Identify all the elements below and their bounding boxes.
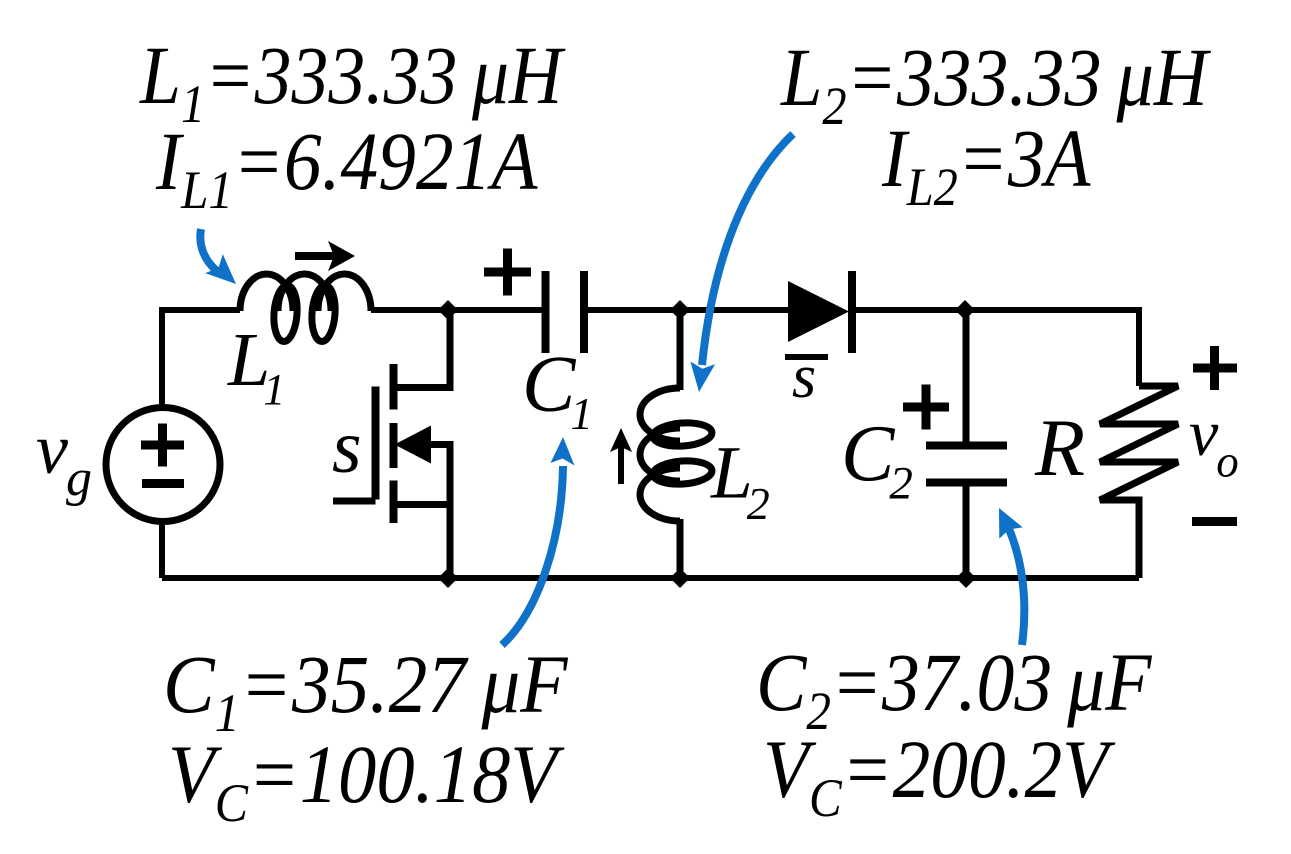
label C1 [522,341,593,439]
node A (L1/switch junction) [438,300,458,320]
label vg [36,409,92,507]
plus sign of C2 [903,385,949,430]
label R [1034,402,1085,493]
transistor Q1 body arrow [395,426,432,464]
transistor Q1 gate lead [333,498,376,505]
wire L2 bottom to ground rail [677,519,684,578]
diode D1 [788,271,852,353]
transistor Q1 channel segments [390,364,398,523]
plus sign of vo [1193,346,1237,390]
value label L2 line1 [780,32,1211,136]
value label C1 line1 [163,640,569,744]
value label L1 line1 [139,29,566,135]
label s (switch) [332,405,362,489]
wire diode to R branch [849,310,1139,386]
wire C2 bottom to ground rail [963,482,970,578]
current direction arrow beside L2 [610,428,632,484]
value label L2 line2 [881,113,1091,217]
callout arrow to L1 [200,229,236,284]
label vo [1189,397,1239,487]
node D (L2 bottom / ground rail) [670,568,690,588]
value label L1 line2 [155,116,538,221]
label C2 [841,411,913,510]
capacitor C2 plates [926,446,1007,483]
capacitor C1 plates [546,271,585,353]
callout arrow to C1 [502,437,575,645]
node C (C1 / L2 junction) [670,300,690,320]
transistor Q1 (MOSFET s) : gate bar [372,387,380,500]
wire node C down to L2 [677,310,684,390]
svg-text:R: R [1034,402,1085,493]
transistor Q1 body/source leads [394,445,451,579]
value label C2 line1 [756,637,1153,742]
wire C1 to node C [584,307,790,313]
wire source bottom to ground rail [159,522,165,578]
resistor R zigzag [1100,386,1178,578]
label L1 [227,318,285,414]
inductor L1 [240,274,371,342]
svg-text:s: s [332,405,362,489]
inductor L2 [640,388,713,521]
callout arrow to C2 [999,508,1024,645]
node E (diode / C2 junction) [955,300,975,320]
value label C1 line2 [168,729,565,833]
voltage source vg [106,408,220,522]
label L2 [710,432,770,530]
wire L1 to C1 [371,307,546,313]
ground rail wire (bottom) [162,575,1139,581]
current direction arrow above L1 [295,241,355,271]
svg-text:s: s [792,343,816,411]
node F (C2 bottom / ground rail) [956,568,976,588]
label s-bar (diode) [785,343,828,411]
wire node E down to C2 [963,310,970,446]
minus sign of vo [1192,517,1237,526]
callout arrow to L2 [690,134,793,392]
transistor Q1 drain lead [394,310,451,388]
wire top-left loop: source top to L1 [162,310,240,405]
value label C2 line2 [763,724,1116,829]
plus sign of C1 [484,249,531,296]
node B (switch source / ground rail) [438,568,458,588]
